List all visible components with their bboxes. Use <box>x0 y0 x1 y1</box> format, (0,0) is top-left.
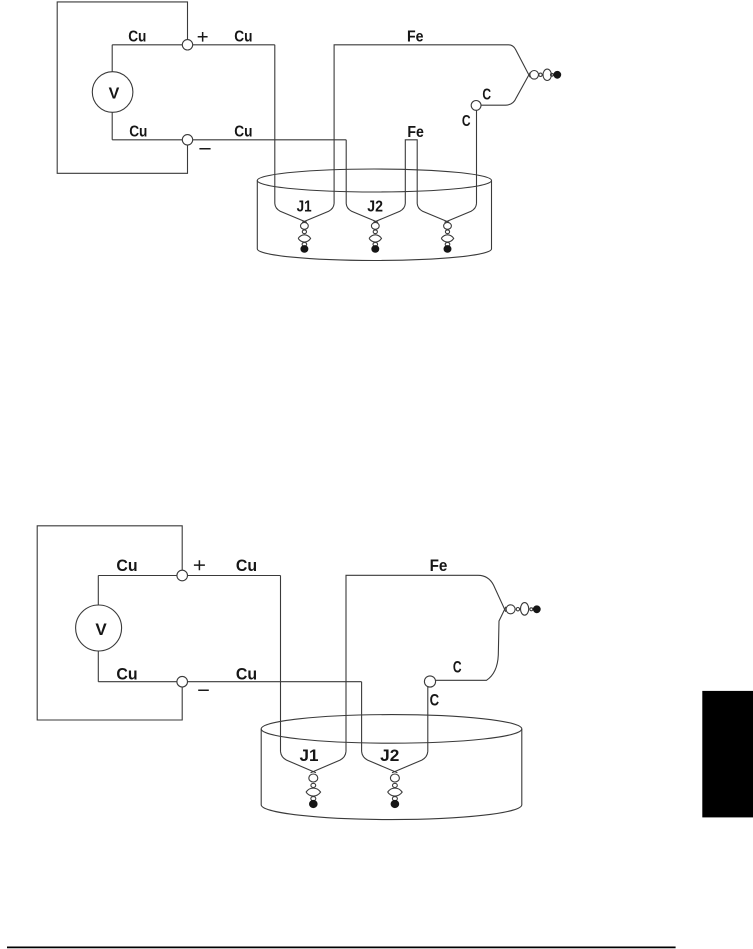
svg-text:J2: J2 <box>380 746 399 765</box>
svg-text:J1: J1 <box>297 199 312 216</box>
svg-text:J1: J1 <box>300 746 319 765</box>
svg-text:Fe: Fe <box>407 124 424 141</box>
svg-text:Fe: Fe <box>430 556 448 575</box>
svg-text:Cu: Cu <box>236 664 257 683</box>
svg-text:Cu: Cu <box>128 28 146 45</box>
svg-text:Cu: Cu <box>236 556 257 575</box>
svg-text:Cu: Cu <box>116 664 137 683</box>
svg-text:Cu: Cu <box>234 124 252 141</box>
svg-text:Cu: Cu <box>129 124 147 141</box>
svg-text:C: C <box>453 658 462 677</box>
svg-text:C: C <box>482 86 491 103</box>
svg-text:Fe: Fe <box>407 28 424 45</box>
svg-text:J2: J2 <box>367 199 383 216</box>
svg-text:C: C <box>430 691 440 710</box>
svg-text:C: C <box>462 113 471 130</box>
svg-text:Cu: Cu <box>234 29 252 46</box>
svg-text:V: V <box>95 620 107 639</box>
svg-text:Cu: Cu <box>116 556 137 575</box>
svg-text:V: V <box>109 86 120 103</box>
